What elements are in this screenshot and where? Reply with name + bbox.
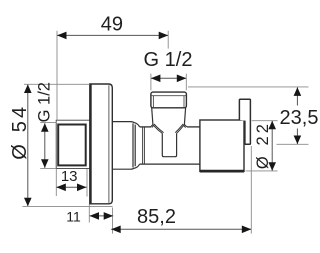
dimension Ø22 vertical line with arrows and extensions (246, 121, 278, 171)
wall flange thick left edge (90, 84, 92, 203)
wall flange inner silhouette line (108, 85, 110, 203)
dimension 85,2 line with arrows and extension (111, 146, 251, 234)
dimension 23,5 line with arrows and extensions (188, 87, 309, 144)
wall flange rosette Ø54 outline (90, 84, 113, 204)
svg-text:13: 13 (61, 168, 78, 185)
svg-text:11: 11 (66, 208, 81, 224)
svg-text:85,2: 85,2 (137, 206, 176, 228)
dimension 13 line with arrows and extensions (56, 169, 87, 197)
handle cylinder (200, 120, 244, 171)
outlet neck tapered walls (152, 108, 186, 125)
funnel V slant left (double curved line) (153, 124, 164, 133)
outlet seat small rectangle (162, 133, 176, 157)
dimension Ø54 vertical line with arrows (22, 84, 112, 206)
dimension G1/2 left vertical line with arrows (40, 123, 56, 169)
outlet thread inner root lines (152, 96, 154, 107)
handle grip tab (239, 99, 250, 144)
funnel V slant right (double curved line) (175, 124, 184, 133)
svg-text:23,5: 23,5 (280, 107, 319, 129)
hex nut behind flange (112, 122, 135, 170)
fillet curves nut to body (134, 122, 140, 168)
dimension 11 line with arrows and extensions (89, 205, 113, 234)
svg-text:49: 49 (101, 14, 123, 36)
outlet thread G1/2 block (top) (151, 92, 187, 108)
handle thick bottom edge (200, 170, 244, 173)
dimension 49 line with arrows (57, 31, 168, 121)
wall thread G1/2 male (left) thick core rect (58, 125, 85, 166)
outlet thread chamfer ring line (151, 95, 186, 97)
svg-text:G 1/2: G 1/2 (144, 49, 193, 71)
svg-text:G 1/2: G 1/2 (36, 82, 54, 122)
dimension G1/2 top line with arrows (151, 74, 186, 91)
wall thread G1/2 male (left) outer thin profile (56, 120, 90, 168)
funnel outer flare left (double line) (151, 125, 154, 128)
funnel outer flare right (double line) (183, 125, 187, 128)
main body cylinder (140, 127, 200, 164)
bonnet seam double line on body (143, 127, 145, 164)
